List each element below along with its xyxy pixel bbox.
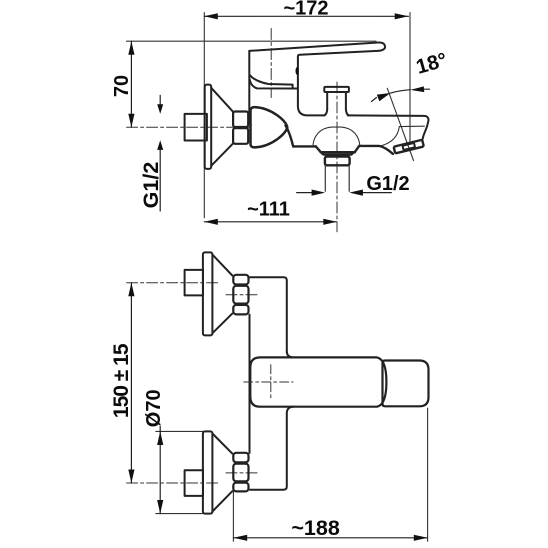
bottom escutcheon flange: [203, 431, 213, 513]
bottom union nut (front): [233, 453, 248, 463]
wire extension line left (x=204.3): [203, 13, 205, 218]
dimension ~188: [233, 408, 427, 541]
top escutcheon flange: [203, 252, 213, 335]
centerline top pipe axis: [127, 282, 220, 284]
dimension 150 +/- 15: [110, 283, 135, 483]
dimension diameter 70: [143, 389, 203, 513]
top inlet pipe (front): [185, 270, 203, 296]
svg-text:~188: ~188: [291, 516, 339, 540]
svg-text:70: 70: [111, 75, 133, 97]
diverter knob (bullet): [251, 107, 288, 147]
body left profile behind knob: [286, 126, 294, 147]
aerator (18 deg outlet): [394, 140, 424, 154]
dimension ~111: [204, 199, 336, 225]
handle grip (front): [250, 357, 386, 406]
svg-text:150 ± 15: 150 ± 15: [110, 343, 133, 418]
dimension 18 degrees: [372, 48, 450, 160]
centerline bottom nut axis: [226, 472, 258, 474]
centerline vertical (cartridge axis): [270, 29, 272, 98]
centerline bottom pipe axis: [127, 482, 220, 484]
bottom escutcheon cone: [212, 434, 232, 454]
inlet pipe (side view): [185, 114, 207, 141]
dome arch under body: [313, 127, 360, 146]
bottom outlet (tub spout connection): [322, 152, 354, 154]
centerline vertical (outlet axis): [336, 82, 338, 232]
escutcheon cone: [211, 88, 233, 112]
svg-text:G1/2: G1/2: [366, 173, 409, 195]
spout crease line: [381, 126, 425, 146]
union nut: [233, 112, 248, 128]
pin dot: [296, 67, 299, 75]
body slab (front): [250, 277, 287, 352]
wall flange (escutcheon edge): [205, 85, 212, 169]
wire extension line right (x=410): [409, 13, 411, 143]
wire extension line top (y=41): [127, 40, 377, 42]
bottom inlet pipe (front): [185, 470, 203, 496]
svg-text:~111: ~111: [247, 199, 290, 221]
lever wedge: [250, 75, 293, 89]
svg-text:~172: ~172: [283, 0, 328, 20]
top escutcheon cone: [212, 255, 232, 276]
faucet body (side): [298, 56, 325, 115]
dimension ~172: [204, 0, 408, 20]
dimension 70: [111, 41, 135, 127]
dimension G1/2 right (bottom outlet): [297, 173, 410, 196]
dimension G1/2 left: [139, 95, 163, 211]
shower connection (top): [324, 87, 349, 92]
cartridge cross centerlines: [270, 365, 272, 400]
centerline horizontal (pipe axis): [127, 126, 250, 128]
body underside outlet step: [321, 151, 355, 154]
svg-text:Ø70: Ø70: [143, 389, 165, 427]
svg-text:G1/2: G1/2: [139, 162, 163, 209]
body underside right: [359, 146, 393, 154]
top union nut (front): [233, 275, 248, 285]
handle end piece: [383, 361, 429, 407]
centerline top nut axis: [226, 294, 258, 296]
cartridge cap: [250, 79, 298, 88]
lever blade: [249, 42, 385, 56]
